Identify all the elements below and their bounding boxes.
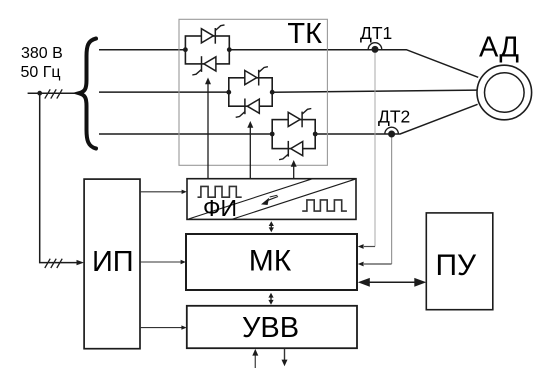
isolation diagonal 1 in FI (189, 179, 313, 219)
node: VS3 right junction (313, 132, 318, 137)
block PU control panel (426, 213, 493, 310)
svg-text:ФИ: ФИ (203, 195, 237, 221)
svg-text:ДТ2: ДТ2 (378, 107, 410, 127)
brace: one line splits to three phases (79, 39, 96, 149)
label AD (479, 32, 519, 64)
thyristor pair VS3 loop (272, 120, 315, 149)
wire: UVV external output arrow (282, 349, 288, 367)
thyristor VS1b (reverse, on bottom edge) (192, 56, 216, 75)
wire: DT2 sense line to MK (358, 138, 392, 267)
wire: gate drive 2 from FI (247, 121, 253, 179)
svg-text:380 В: 380 В (21, 45, 63, 62)
thyristor pair VS2 loop (229, 78, 272, 106)
svg-text:ТК: ТК (287, 18, 322, 50)
node: VS1 left junction (183, 47, 188, 52)
wire: phase C left segment (99, 133, 272, 135)
label 380 V 50 Hz supply (21, 45, 63, 81)
node: VS2 left junction (226, 90, 231, 95)
thyristor VS3b (reverse, on bottom edge) (279, 141, 303, 160)
wire: IP output to FI (140, 190, 187, 194)
wire: UVV external input arrow (252, 349, 258, 368)
label MK (249, 244, 292, 277)
wire: gate drive 3 from FI (291, 160, 297, 179)
motor AD inner circle (485, 73, 525, 113)
thyristor VS2b (reverse, on bottom edge) (236, 99, 260, 118)
wire: supply feed stub (28, 92, 78, 94)
node: VS3 left junction (270, 132, 275, 137)
pulse train symbol (FI input side) (198, 186, 242, 197)
wire: phase A right segment to motor (229, 50, 478, 78)
label FI (203, 195, 237, 221)
current sensor DT2 (385, 127, 399, 137)
label UVV (242, 312, 299, 344)
svg-text:МК: МК (249, 244, 292, 277)
thyristor VS3a (forward, on top edge) (288, 109, 311, 128)
block FI pulse former (187, 179, 356, 220)
block UVV input-output device (187, 306, 357, 348)
thyristor pair VS1 loop (185, 36, 229, 64)
wire: phase B right segment to motor (272, 90, 476, 92)
wire: IP output to MK (140, 260, 186, 264)
wire: phase C right segment to motor (315, 104, 477, 134)
block MK microcontroller (186, 234, 357, 290)
node: VS1 right junction (227, 47, 232, 52)
double arrow FI-MK (269, 221, 274, 232)
block TK thyristor switch outline (179, 19, 327, 165)
label DT1 (360, 23, 392, 43)
node: supply junction dot (37, 91, 42, 96)
wire: gate drive 1 from FI (205, 78, 211, 179)
isolation transfer arrow in FI (261, 195, 278, 205)
motor AD outer circle (477, 65, 532, 120)
svg-text:АД: АД (479, 32, 519, 64)
label DT2 (378, 107, 410, 127)
svg-text:ИП: ИП (92, 246, 134, 278)
label PU (435, 249, 477, 282)
svg-text:ДТ1: ДТ1 (360, 23, 392, 43)
thyristor VS2a (forward, on top edge) (245, 67, 268, 86)
double arrow MK-PU (358, 278, 427, 287)
label IP (92, 246, 134, 278)
double arrow MK-UVV (268, 293, 273, 305)
svg-text:ПУ: ПУ (435, 249, 477, 282)
block IP power supply (84, 179, 140, 349)
wire: DT1 sense line to MK (358, 53, 375, 249)
node: VS2 right junction (270, 90, 275, 95)
wire: IP output to UVV (140, 325, 187, 329)
current sensor DT1 (368, 43, 382, 53)
pulse train symbol (FI output side) (302, 200, 347, 211)
label TK (287, 18, 322, 50)
wire: phase A left segment (99, 49, 185, 51)
wire: drop from junction to IP input (40, 93, 77, 262)
svg-text:УВВ: УВВ (242, 312, 299, 344)
thyristor VS1a (forward, on top edge) (201, 25, 224, 44)
three-phase slash marks on feed wire (45, 89, 62, 98)
isolation diagonal 2 in FI (232, 179, 355, 219)
arrowhead into IP (77, 260, 85, 265)
svg-text:50 Гц: 50 Гц (21, 64, 61, 81)
three-phase slash marks on IP input wire (45, 259, 62, 268)
wire: phase B left segment (99, 91, 229, 93)
